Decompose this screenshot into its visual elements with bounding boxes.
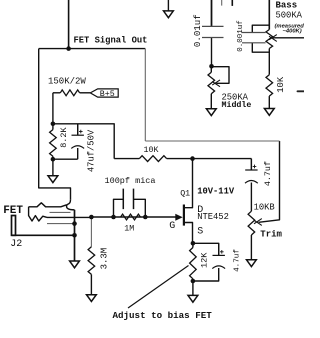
svg-text:12K: 12K bbox=[199, 252, 209, 268]
svg-text:10KB: 10KB bbox=[254, 202, 275, 212]
svg-text:Bass: Bass bbox=[276, 1, 298, 11]
svg-text:10K: 10K bbox=[144, 146, 159, 155]
svg-text:500KA: 500KA bbox=[276, 11, 303, 21]
svg-text:0.01uf: 0.01uf bbox=[192, 14, 203, 47]
svg-text:B+5: B+5 bbox=[100, 90, 115, 99]
svg-text:~400K): ~400K) bbox=[283, 28, 302, 34]
svg-text:47uf/50V: 47uf/50V bbox=[87, 129, 97, 172]
svg-text:Adjust to bias FET: Adjust to bias FET bbox=[113, 310, 213, 321]
svg-text:FET: FET bbox=[3, 205, 23, 217]
svg-text:150K/2W: 150K/2W bbox=[48, 77, 86, 87]
svg-text:FET Signal Out: FET Signal Out bbox=[74, 36, 148, 46]
svg-text:3.3M: 3.3M bbox=[99, 248, 109, 270]
svg-text:J2: J2 bbox=[10, 239, 22, 250]
svg-text:S: S bbox=[197, 226, 203, 237]
svg-text:G: G bbox=[169, 221, 175, 232]
svg-text:Trim: Trim bbox=[260, 230, 282, 240]
svg-text:4.7uf: 4.7uf bbox=[233, 249, 241, 272]
svg-text:4.7uf: 4.7uf bbox=[263, 161, 273, 186]
svg-text:0.001uf: 0.001uf bbox=[237, 20, 245, 52]
svg-text:1M: 1M bbox=[124, 225, 134, 234]
svg-text:Q1: Q1 bbox=[180, 190, 190, 199]
svg-text:100pf mica: 100pf mica bbox=[105, 176, 156, 186]
svg-text:NTE452: NTE452 bbox=[197, 212, 229, 222]
svg-text:8.2K: 8.2K bbox=[59, 127, 69, 148]
svg-text:Middle: Middle bbox=[222, 100, 252, 110]
svg-text:10V-11V: 10V-11V bbox=[197, 187, 235, 197]
svg-text:10K: 10K bbox=[276, 76, 286, 93]
